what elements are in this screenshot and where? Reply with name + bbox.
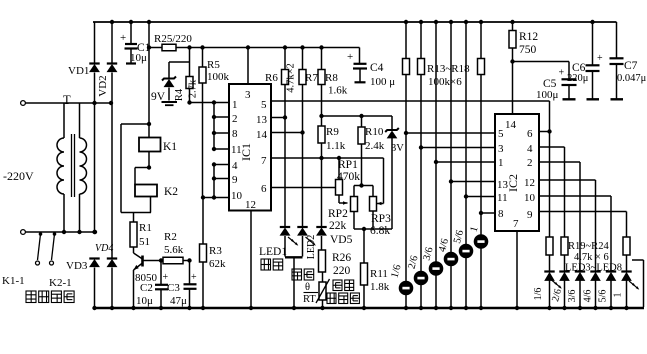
resistor R24 4.7k: [623, 237, 630, 255]
switch K1-1: [39, 232, 43, 236]
indicator lamp 5 column: [465, 197, 467, 309]
diode VD3: [89, 257, 99, 259]
svg-text:R7: R7: [305, 72, 318, 84]
wire IC1 pin12 column to bus: [250, 211, 252, 309]
svg-text:R6: R6: [265, 72, 278, 84]
wire IC1 pins 1-2-8-11 tie: [213, 103, 215, 150]
svg-text:VD3: VD3: [66, 260, 88, 272]
svg-text:R12: R12: [519, 31, 538, 43]
wire IC1 pin14 line: [271, 132, 303, 134]
wire IC2 left pin row 2: [421, 147, 495, 149]
indicator lamp 1 column: [405, 133, 407, 308]
transformer T primary winding: [63, 103, 65, 138]
LED LED3: [549, 255, 551, 272]
wire R2 to node: [183, 260, 190, 262]
wire IC2 left pin row 5: [466, 196, 495, 198]
svg-text:12: 12: [245, 199, 256, 211]
svg-text:14: 14: [505, 119, 517, 131]
svg-text:0.047μ: 0.047μ: [617, 73, 647, 84]
svg-text:4.7k×2: 4.7k×2: [286, 63, 297, 93]
svg-text:R13~R18: R13~R18: [427, 63, 470, 75]
svg-text:θ: θ: [305, 282, 310, 293]
resistor R1 51: [133, 213, 135, 223]
wire IC1 pin7 line: [271, 157, 384, 159]
svg-text:10μ: 10μ: [136, 295, 153, 307]
svg-text:6.8k: 6.8k: [370, 225, 390, 237]
svg-text:R5: R5: [207, 59, 220, 71]
svg-text:11: 11: [497, 192, 508, 204]
resistor R19 4.7k: [546, 237, 553, 255]
svg-text:5.6k: 5.6k: [164, 244, 184, 256]
svg-text:+: +: [191, 272, 197, 283]
svg-text:1: 1: [498, 157, 504, 169]
svg-text:2.4k: 2.4k: [365, 140, 385, 152]
diode VD2: [110, 20, 114, 24]
svg-text:IC2: IC2: [506, 174, 520, 192]
svg-text:VD5: VD5: [330, 234, 353, 246]
svg-text:+: +: [597, 53, 603, 64]
resistor R16 100k column: [449, 20, 453, 24]
indicator lamp 5: [459, 244, 474, 259]
svg-text:C3: C3: [167, 282, 180, 294]
svg-text:RP2: RP2: [328, 208, 348, 220]
svg-text:R26: R26: [332, 252, 351, 264]
svg-text:+: +: [559, 68, 565, 79]
svg-text:5/6: 5/6: [598, 290, 609, 303]
resistor R13 100k column: [404, 20, 408, 24]
svg-text:750: 750: [519, 44, 537, 56]
wire IC2 left pin row 4: [451, 181, 495, 183]
indicator lamp 4: [444, 252, 459, 267]
resistor R3 62k: [202, 198, 204, 245]
svg-text:3/6: 3/6: [567, 290, 578, 303]
LED LED6: [595, 255, 597, 272]
resistor R7 4.7k: [300, 45, 304, 49]
svg-text:C2: C2: [140, 282, 153, 294]
svg-text:8: 8: [498, 208, 504, 220]
LED LED2: [302, 133, 304, 228]
node mains terminal upper: [21, 101, 26, 106]
LED LED7: [610, 255, 612, 272]
wire IC2 pin7 to bus: [516, 231, 518, 308]
resistor R17 100k column: [464, 20, 468, 24]
svg-text:3: 3: [498, 143, 504, 155]
wire IC1 pin6 line: [271, 187, 336, 189]
svg-text:6: 6: [527, 128, 533, 140]
potentiometer RP1 470k: [338, 158, 340, 180]
wire terminal wire to VD2 column: [92, 102, 111, 104]
svg-text:8: 8: [232, 128, 238, 140]
resistor R9 1.1k: [321, 116, 323, 126]
wire relay column from R25 junction: [148, 48, 150, 125]
capacitor C2 10u: [160, 261, 162, 285]
svg-text:-220V: -220V: [3, 169, 34, 183]
indicator lamp 6: [474, 234, 489, 249]
wire IC2 right pin row to LED column 4: [539, 179, 596, 181]
capacitor C4 100u: [359, 48, 361, 64]
label power (dianyuan): [261, 259, 283, 270]
svg-text:K1-1: K1-1: [2, 275, 25, 287]
svg-text:K1: K1: [163, 141, 177, 153]
resistor R20 4.7k: [561, 237, 568, 255]
wire R25 line y=47.5: [149, 47, 360, 49]
svg-text:12: 12: [524, 177, 535, 189]
resistor R25/220: [147, 20, 151, 24]
transformer T secondary winding: [79, 103, 81, 138]
relay coil K1: [148, 124, 150, 138]
zener diode 9V: [168, 62, 170, 79]
svg-text:LED2: LED2: [306, 235, 317, 259]
label heater (connect electric heater): [26, 291, 74, 303]
wire VD1 column to VD3: [94, 103, 96, 232]
capacitor C3 47u: [189, 261, 191, 284]
svg-text:10: 10: [524, 192, 536, 204]
svg-text:7: 7: [513, 218, 519, 230]
svg-text:R9: R9: [326, 126, 339, 138]
svg-text:470k: 470k: [337, 171, 360, 183]
label temperature (wendu): [333, 280, 354, 291]
wire base wire: [143, 260, 164, 262]
wire IC1 pin13 line: [271, 117, 285, 119]
wire R12 to C5: [513, 61, 570, 63]
transformer T core: [71, 134, 73, 197]
svg-text:RP3: RP3: [371, 213, 391, 225]
svg-text:220μ: 220μ: [567, 73, 589, 84]
svg-text:220: 220: [333, 265, 351, 277]
resistor R18 100k column: [479, 20, 483, 24]
indicator lamp 6 column: [480, 213, 482, 308]
svg-text:1.6k: 1.6k: [328, 85, 348, 97]
capacitor C1 10u: [129, 20, 133, 24]
svg-text:R2: R2: [164, 231, 177, 243]
diode VD1: [94, 22, 96, 64]
svg-text:VD4: VD4: [95, 243, 113, 254]
indicator lamp 3 column: [435, 162, 437, 308]
wire IC2 left pin row 3: [436, 161, 495, 163]
svg-text:RT: RT: [303, 294, 316, 305]
wire pin1 ground line: [190, 102, 230, 104]
svg-text:R10: R10: [365, 126, 384, 138]
svg-text:R11: R11: [370, 268, 388, 280]
svg-text:2: 2: [527, 157, 533, 169]
resistor R5 100k: [200, 45, 204, 49]
svg-text:6: 6: [261, 183, 267, 195]
svg-text:47μ: 47μ: [170, 295, 187, 307]
wire R4 top jog to zener: [187, 45, 191, 49]
wire R12 column to IC2 pin14: [512, 62, 514, 115]
resistor R8 1.6k: [319, 45, 323, 49]
resistor R10 2.4k: [361, 116, 363, 127]
svg-text:5: 5: [261, 99, 267, 111]
wire LED1 LED2 common to bus: [285, 256, 303, 258]
resistor R6 4.7k: [283, 45, 287, 49]
svg-text:4: 4: [232, 160, 238, 172]
resistor R21 4.7k: [579, 237, 581, 255]
svg-text:51: 51: [139, 236, 150, 248]
svg-text:1.8k: 1.8k: [370, 281, 390, 293]
svg-text:4.7k × 6: 4.7k × 6: [574, 252, 609, 263]
svg-text:2.7k: 2.7k: [188, 79, 199, 98]
wire R5 column down: [202, 103, 204, 198]
wire IC2 right pin row to LED column 3: [539, 161, 580, 163]
ground bar under 9V zener: [162, 101, 178, 103]
capacitor C5 100u: [568, 62, 570, 79]
svg-text:R4: R4: [174, 88, 185, 101]
svg-text:10μ: 10μ: [130, 52, 147, 64]
op-amp IC1 box: [229, 84, 271, 211]
wire IC1 pin3 column: [246, 45, 250, 49]
node mains terminal lower: [21, 230, 26, 235]
svg-text:100k: 100k: [207, 71, 230, 83]
svg-text:IC1: IC1: [239, 143, 253, 161]
wire RP1 bottom to RP2 wiper: [338, 195, 340, 203]
zener diode 3V: [391, 116, 393, 130]
svg-text:VD2: VD2: [97, 75, 109, 96]
resistor R11 1.8k: [363, 229, 365, 263]
wire IC2 right pin row to LED column 6: [539, 211, 627, 213]
wire K2 bottom to bracket: [150, 197, 152, 213]
indicator lamp 3: [429, 261, 444, 276]
svg-text:22k: 22k: [329, 220, 347, 232]
svg-text:R19~R24: R19~R24: [568, 241, 609, 252]
resistor R14 100k column: [419, 20, 423, 24]
svg-text:2: 2: [232, 113, 238, 125]
svg-text:14: 14: [256, 129, 268, 141]
svg-text:C7: C7: [624, 60, 638, 72]
svg-text:100 μ: 100 μ: [370, 76, 395, 88]
wire IC2 right pin row to LED column 1: [539, 131, 550, 133]
transistor V 8050: [133, 247, 135, 253]
indicator lamp 4 column: [450, 182, 452, 309]
LED LED1: [284, 118, 286, 228]
svg-text:R1: R1: [139, 222, 152, 234]
wire IC2 left pin row 6: [481, 212, 495, 214]
resistor R23 4.7k: [610, 237, 612, 255]
label sensor (chuanganqi): [327, 293, 359, 304]
diode VD5: [321, 158, 323, 227]
wire RP2 RP3 top tie: [354, 185, 373, 187]
svg-text:LED1: LED1: [259, 246, 287, 258]
svg-text:13: 13: [256, 114, 268, 126]
svg-text:5: 5: [498, 128, 504, 140]
LED LED3 arrows: [552, 280, 558, 285]
potentiometer RP2 22k: [353, 186, 355, 197]
switch K2-1: [53, 232, 57, 236]
wire IC1 pins 4-9-10 tie: [213, 165, 215, 198]
wire relay bracket: [121, 123, 149, 125]
svg-text:+: +: [347, 51, 353, 63]
resistor R22 4.7k: [595, 237, 597, 255]
label heating (jiare): [292, 269, 314, 280]
svg-text:RP1: RP1: [338, 159, 358, 171]
svg-text:K2-1: K2-1: [49, 277, 72, 289]
svg-text:10: 10: [231, 190, 243, 202]
svg-text:+: +: [120, 32, 126, 44]
svg-text:R25/220: R25/220: [154, 33, 192, 45]
svg-text:62k: 62k: [209, 258, 226, 270]
wire K1 to K2 jog: [148, 152, 150, 168]
indicator lamp 2: [414, 271, 429, 286]
indicator lamp 1: [399, 281, 414, 296]
relay coil K2: [135, 185, 157, 197]
thermistor RT: [322, 272, 324, 282]
svg-text:3V: 3V: [391, 143, 404, 154]
LED LED4: [564, 255, 566, 272]
svg-text:9: 9: [232, 174, 238, 186]
LED LED5: [579, 255, 581, 272]
wire bottom ground bus: [95, 307, 645, 309]
potentiometer RP3 6.8k: [372, 186, 374, 197]
indicator lamp 2 column: [420, 148, 422, 309]
svg-text:100μ: 100μ: [536, 89, 559, 101]
resistor R12 750: [510, 20, 514, 24]
svg-text:1: 1: [613, 293, 624, 298]
resistor R26 220: [319, 250, 326, 272]
capacitor C6 220u: [590, 20, 594, 24]
svg-text:LED3~LED8: LED3~LED8: [565, 263, 622, 274]
svg-text:C4: C4: [370, 62, 384, 74]
op-amp IC2 box: [495, 114, 539, 231]
LED LED8 arrows: [629, 281, 635, 286]
diode VD4: [107, 257, 117, 259]
wire R9 R10 top tie: [322, 115, 393, 117]
svg-text:9: 9: [527, 209, 533, 221]
wire RP2 RP3 bottom tie: [354, 228, 392, 230]
wire VD2 column to VD4: [111, 103, 113, 259]
resistor R2 5.6k: [163, 257, 183, 264]
svg-text:1.1k: 1.1k: [326, 140, 346, 152]
wire IC2 left pin row 1: [406, 132, 495, 134]
svg-text:3: 3: [245, 89, 251, 101]
svg-text:VD1: VD1: [68, 65, 89, 77]
wire IC2 right pin row to LED column 2: [539, 146, 565, 148]
capacitor C7 0.047u: [616, 22, 618, 58]
wire top supply rail: [93, 21, 617, 23]
wire right edge return: [643, 260, 645, 307]
resistor R15 100k column: [434, 20, 438, 24]
svg-text:100k×6: 100k×6: [428, 76, 462, 88]
svg-text:K2: K2: [164, 186, 178, 198]
svg-text:1: 1: [232, 99, 238, 111]
svg-text:R3: R3: [209, 245, 222, 257]
svg-text:R8: R8: [325, 72, 338, 84]
resistor R4 2.7k: [189, 62, 191, 77]
LED LED8: [626, 255, 628, 272]
svg-text:4/6: 4/6: [583, 290, 594, 303]
svg-text:1/6: 1/6: [533, 288, 544, 301]
wire IC1 pin5 rail to IC2 pin6: [271, 100, 550, 102]
wire IC2 right pin row to LED column 5: [539, 195, 611, 197]
svg-text:4: 4: [527, 143, 533, 155]
svg-text:7: 7: [261, 155, 267, 167]
